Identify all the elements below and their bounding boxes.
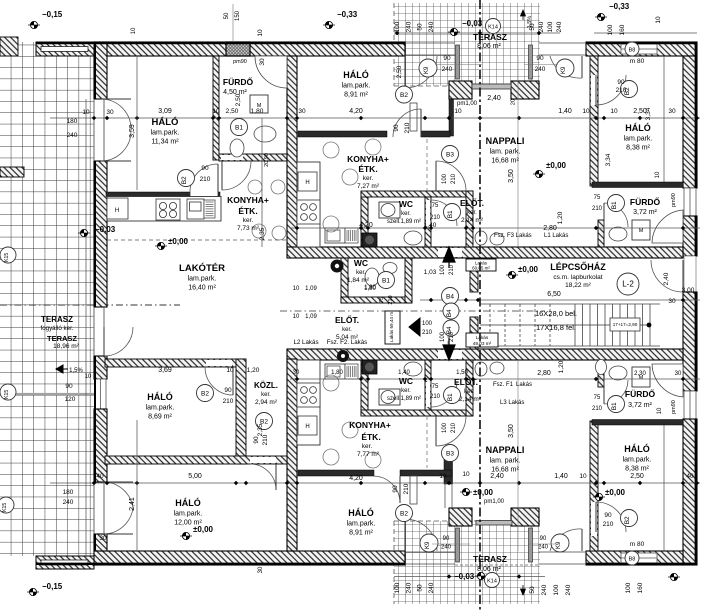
exterior wall left seg3a [94, 356, 107, 379]
kitchen counter top-left [107, 197, 221, 222]
svg-text:50: 50 [417, 584, 424, 592]
svg-text:240: 240 [538, 21, 545, 32]
door gap bath top-left [221, 155, 243, 160]
svg-text:−0,33: −0,33 [337, 10, 358, 19]
svg-text:3,72 m²: 3,72 m² [628, 402, 652, 409]
corridor dashed edge top [426, 139, 428, 191]
svg-text:10: 10 [82, 109, 90, 116]
central wall lower [287, 349, 683, 360]
french door bottom-left [103, 482, 133, 508]
svg-text:3,69: 3,69 [158, 367, 172, 374]
wall above halo bottom-right [592, 420, 683, 426]
svg-text:HÁLÓ: HÁLÓ [152, 116, 179, 128]
svg-text:30: 30 [106, 109, 114, 116]
level marker -0,33 top-right [595, 2, 630, 21]
svg-text:K9: K9 [424, 66, 430, 74]
svg-text:10: 10 [257, 29, 264, 37]
svg-text:210: 210 [592, 406, 603, 412]
elot wall right top-center [425, 197, 431, 247]
terrace rail bottom-right [529, 528, 533, 562]
level marker +-0,00 halo bottom-left [180, 525, 214, 540]
toilet top-center wc [379, 202, 400, 218]
svg-text:75: 75 [594, 395, 601, 401]
corridor wc wall south [341, 297, 412, 303]
svg-text:B1: B1 [447, 210, 454, 218]
svg-text:10: 10 [439, 473, 447, 480]
svg-text:2,50: 2,50 [630, 473, 644, 480]
left window dim line [0, 393, 94, 395]
stove top-left [156, 199, 180, 220]
door circle B2 nappali bottom [396, 505, 413, 522]
svg-text:8,69 m²: 8,69 m² [148, 414, 172, 421]
svg-text:10: 10 [579, 473, 587, 480]
level marker +-0,00 lakoter [155, 237, 189, 250]
svg-text:30: 30 [668, 298, 676, 305]
svg-text:2,50: 2,50 [226, 108, 239, 115]
svg-text:LÉPCSŐHÁZ: LÉPCSŐHÁZ [550, 261, 606, 272]
exterior wall top B [586, 42, 697, 56]
neighbor wall top-left margin [0, 37, 18, 56]
svg-text:5,00: 5,00 [188, 473, 202, 480]
svg-text:90: 90 [65, 383, 73, 390]
svg-text:B2: B2 [400, 92, 408, 99]
svg-text:HÁLÓ: HÁLÓ [147, 391, 173, 402]
washing machine bottom-right [632, 367, 650, 387]
door circle B2 halo bottom-right [621, 510, 638, 527]
svg-text:WC: WC [399, 199, 413, 209]
svg-text:10: 10 [454, 108, 462, 115]
level marker +-0,00 nappali top [533, 161, 567, 178]
svg-text:4,20: 4,20 [349, 108, 363, 115]
terrace tiles left upper [0, 42, 36, 56]
arrow left corridor [409, 318, 420, 336]
svg-text:lam.park.: lam.park. [188, 276, 217, 283]
sink top-left bath [254, 126, 276, 142]
terrace door K9 top-left [405, 56, 437, 88]
door gap bedroom bottom-left [206, 360, 232, 366]
washer dark top-center [362, 233, 377, 247]
svg-text:210: 210 [422, 330, 433, 336]
svg-text:2,80: 2,80 [543, 225, 557, 232]
svg-text:3,50: 3,50 [508, 424, 515, 438]
svg-text:210: 210 [451, 173, 457, 184]
svg-text:lam.park.: lam.park. [623, 457, 652, 464]
kitchen sink bottom-center [325, 364, 345, 379]
svg-text:210: 210 [430, 215, 441, 221]
svg-text:−0,03: −0,03 [462, 19, 483, 28]
door elot B1 bottom [431, 381, 457, 407]
terrace boundary bottom [394, 520, 540, 522]
svg-text:10: 10 [582, 108, 590, 115]
svg-text:M: M [639, 228, 644, 234]
sink bottom-center wc [404, 362, 422, 376]
svg-text:1,84 m²: 1,84 m² [347, 277, 370, 284]
svg-text:120: 120 [65, 396, 76, 403]
svg-text:100: 100 [625, 582, 632, 593]
level marker -0,15 top-left [28, 10, 63, 29]
svg-text:B1: B1 [611, 201, 618, 209]
svg-text:±0,00: ±0,00 [168, 237, 189, 246]
circle B4 corridor c [443, 320, 459, 336]
terrace recess wall bottom-left block [449, 508, 472, 526]
stair label box [610, 318, 640, 331]
svg-text:75: 75 [432, 384, 439, 390]
dimension line y228 [290, 227, 700, 229]
svg-text:75: 75 [432, 203, 439, 209]
entry door gap lower [438, 350, 462, 359]
wc wall top top-center [361, 191, 473, 197]
window circle B8 top [625, 42, 639, 56]
svg-text:210: 210 [200, 176, 211, 183]
svg-text:±0,00: ±0,00 [546, 161, 567, 170]
svg-text:ker.: ker. [467, 210, 477, 216]
svg-text:HÁLÓ: HÁLÓ [348, 507, 374, 518]
H box top-center [298, 172, 317, 191]
svg-text:ELŐT.: ELŐT. [454, 376, 478, 387]
door B3 bottom [436, 416, 466, 446]
svg-text:2,94 m²: 2,94 m² [255, 399, 278, 406]
area box upper [466, 259, 496, 271]
svg-text:10: 10 [226, 367, 234, 374]
toilets near corridor bottom [475, 362, 487, 376]
svg-text:B8: B8 [629, 556, 636, 562]
sliding door bottom terrace [476, 521, 512, 526]
svg-text:50: 50 [529, 586, 536, 594]
sliding door top terrace [472, 84, 511, 89]
svg-text:KONYHA+: KONYHA+ [349, 420, 391, 430]
level marker -0,03 top terrace [448, 19, 483, 36]
left wall opening mid [93, 307, 95, 356]
svg-text:100: 100 [442, 422, 448, 433]
door halo top-right [596, 75, 626, 105]
svg-text:KONYHA+: KONYHA+ [347, 154, 389, 164]
svg-text:B1: B1 [235, 124, 243, 131]
svg-text:WC: WC [354, 258, 368, 268]
outer dimension line top [394, 32, 560, 34]
exterior wall right upper [683, 56, 697, 188]
outline edge top A [36, 42, 405, 44]
svg-text:90: 90 [443, 536, 450, 542]
svg-text:10: 10 [462, 471, 470, 478]
svg-text:1,80: 1,80 [251, 108, 264, 115]
svg-text:7,77 m²: 7,77 m² [357, 451, 380, 458]
svg-text:−0,15: −0,15 [42, 10, 63, 19]
svg-text:240: 240 [441, 545, 452, 551]
door gap bedroom2 bottom-left [250, 457, 276, 463]
svg-text:±0,00: ±0,00 [473, 488, 494, 497]
svg-text:2,40: 2,40 [490, 473, 504, 480]
door halo bottom-right [596, 502, 626, 532]
french door top-left [101, 99, 131, 129]
entry door gap upper [438, 248, 462, 257]
nappali/halo wall top-right [590, 56, 598, 186]
kitchen counter top-center [297, 162, 320, 247]
door circle B3 bottom [442, 445, 459, 462]
svg-text:90: 90 [540, 536, 547, 542]
svg-text:Lakás: Lakás [476, 335, 489, 340]
svg-text:20: 20 [511, 99, 517, 105]
elot/nappali wall top [466, 191, 473, 247]
dish rack top-center [345, 228, 358, 243]
svg-text:L1 Lakás: L1 Lakás [544, 233, 568, 239]
svg-text:10: 10 [131, 27, 137, 34]
threshold bottom-left terrace door [405, 551, 455, 553]
svg-text:240: 240 [556, 21, 563, 32]
door gap halo bottom-right [591, 502, 597, 536]
door circle B2 halo bottom-left [197, 385, 214, 402]
svg-text:1,09: 1,09 [305, 286, 317, 292]
svg-text:210: 210 [404, 122, 411, 133]
svg-text:NAPPALI: NAPPALI [486, 136, 525, 146]
svg-text:pm90: pm90 [671, 193, 677, 207]
svg-text:100: 100 [553, 584, 560, 595]
svg-text:50: 50 [417, 23, 424, 31]
svg-text:lam.park.: lam.park. [624, 136, 653, 143]
window circle K14 top [486, 19, 501, 34]
svg-text:90: 90 [443, 55, 451, 62]
svg-text:90: 90 [224, 387, 232, 394]
outline edge bottom B [586, 563, 697, 565]
svg-text:8,38 m²: 8,38 m² [626, 145, 650, 152]
svg-text:40: 40 [686, 473, 694, 480]
elot/nappali wall bottom [466, 360, 473, 416]
door circle B1 elot top [444, 204, 461, 221]
svg-text:B2: B2 [624, 516, 631, 524]
door bedroom2 bottom-left [250, 464, 276, 490]
window circle K14 bottom [485, 573, 500, 588]
door bath top-right [604, 203, 628, 227]
svg-text:2,35: 2,35 [259, 227, 266, 240]
svg-text:K14: K14 [487, 578, 497, 584]
svg-text:HÁLÓ: HÁLÓ [625, 122, 651, 133]
svg-text:−0,15: −0,15 [42, 582, 63, 591]
svg-text:fogyálló ker.: fogyálló ker. [40, 325, 73, 332]
door circle B2 kozl [256, 413, 273, 430]
wc wall left top-center [361, 192, 368, 247]
exterior wall right mid1 [683, 216, 697, 256]
door circle B3 top [442, 146, 459, 163]
svg-text:1,50: 1,50 [456, 370, 468, 376]
svg-text:240: 240 [67, 132, 78, 139]
svg-text:K14: K14 [488, 24, 498, 30]
svg-text:ker.: ker. [362, 443, 373, 450]
svg-text:lam.park.: lam.park. [174, 511, 203, 518]
door gap halo top-right [591, 75, 597, 105]
svg-text:K9: K9 [556, 541, 562, 549]
svg-text:TERASZ: TERASZ [41, 315, 73, 324]
svg-text:1,40: 1,40 [424, 222, 437, 229]
svg-text:pm1,00: pm1,00 [457, 101, 478, 107]
vertical dim line x86 [85, 99, 87, 560]
nappali west wall top [449, 99, 454, 136]
svg-text:pm1,00: pm1,00 [484, 499, 505, 505]
svg-text:240: 240 [428, 21, 435, 32]
neighbor parapet left a [0, 167, 24, 177]
door circle K9 top-right [556, 59, 574, 77]
svg-text:B2: B2 [181, 176, 188, 184]
svg-text:1,40: 1,40 [558, 108, 572, 115]
svg-text:2,40: 2,40 [487, 95, 501, 102]
svg-text:10: 10 [655, 16, 662, 24]
svg-text:lam.park.: lam.park. [347, 521, 376, 528]
slope arrow left 1,5% [56, 365, 68, 373]
svg-text:210: 210 [603, 521, 614, 528]
svg-text:90: 90 [604, 512, 612, 519]
stair corridor wall bottom [470, 317, 478, 349]
toilet top-left [230, 139, 244, 157]
svg-text:1,5%: 1,5% [69, 368, 83, 374]
svg-text:150: 150 [235, 10, 241, 21]
svg-text:180: 180 [63, 489, 74, 496]
circle B4 corridor b [443, 303, 459, 319]
svg-text:17+17=2,90: 17+17=2,90 [613, 322, 638, 327]
svg-text:30: 30 [298, 108, 306, 115]
svg-text:3,09: 3,09 [158, 108, 172, 115]
door B3 top [436, 161, 466, 191]
svg-text:90: 90 [201, 165, 209, 172]
terrace tiles bottom [394, 521, 540, 604]
terrace door left-mid [104, 327, 133, 356]
svg-text:ÉTK.: ÉTK. [361, 432, 380, 442]
exterior wall right lower [683, 419, 697, 565]
terrace recess wall bottom-right block [511, 508, 539, 526]
terrace tiles left [0, 56, 94, 556]
elot wall right bottom-center [425, 360, 431, 410]
terrace bottom threshold [455, 564, 539, 566]
svg-text:±0,00: ±0,00 [605, 488, 626, 497]
svg-text:2,80: 2,80 [537, 370, 551, 377]
level marker +-0,00 halo bottom-right [593, 488, 626, 501]
svg-text:18,22 m²: 18,22 m² [565, 282, 591, 289]
level marker -0,33 top-mid [323, 10, 358, 29]
svg-text:3,00: 3,00 [682, 287, 695, 294]
svg-text:K9: K9 [425, 541, 431, 549]
svg-text:240: 240 [63, 499, 74, 506]
dish rack top-left [204, 200, 215, 218]
svg-text:240: 240 [405, 582, 412, 593]
svg-text:1,20: 1,20 [247, 367, 260, 374]
central wall upper [287, 247, 683, 258]
halo top-center south wall b [421, 131, 450, 137]
corridor wc toilet [365, 268, 379, 286]
svg-text:180: 180 [67, 118, 78, 125]
exterior wall bottom A [94, 551, 405, 565]
svg-text:100: 100 [440, 264, 446, 275]
sink bottom-right bath [609, 366, 627, 380]
svg-text:3,59: 3,59 [129, 124, 136, 138]
svg-text:100: 100 [442, 173, 448, 184]
chimney top [226, 42, 250, 56]
svg-text:1,80: 1,80 [331, 370, 343, 376]
dining chairs top-left [248, 180, 286, 240]
svg-text:FÜRDŐ: FÜRDŐ [223, 76, 254, 87]
vertical dim line x518 [517, 56, 519, 247]
svg-text:B2: B2 [201, 390, 209, 397]
exterior wall left seg3b [94, 409, 107, 482]
door bath bottom-right [604, 380, 628, 404]
terrace door K9 top-right [550, 56, 582, 78]
terrace rail top-left [456, 45, 460, 79]
svg-text:ker.: ker. [401, 211, 411, 217]
svg-text:240: 240 [565, 584, 572, 595]
vertical dim line x664 [663, 56, 665, 182]
svg-text:100: 100 [607, 24, 614, 35]
svg-text:L2 Lakás: L2 Lakás [293, 339, 318, 346]
svg-text:ker.: ker. [401, 388, 411, 394]
svg-text:3,34: 3,34 [605, 153, 612, 166]
bath stub top-right [598, 220, 604, 247]
svg-text:1,20: 1,20 [557, 211, 564, 224]
svg-text:H: H [305, 424, 309, 430]
dining table bottom-center [323, 375, 381, 468]
svg-text:2,40: 2,40 [663, 272, 670, 285]
wall above bedroom2 bottom-left [105, 456, 287, 464]
window top-right m80 [621, 44, 657, 54]
vertical dim line x262 [261, 118, 263, 247]
svg-text:8,91 m²: 8,91 m² [349, 530, 373, 537]
svg-text:ÉTK.: ÉTK. [358, 164, 377, 174]
svg-text:2,14 m²: 2,14 m² [459, 396, 482, 403]
level marker -0,03 bottom terrace [454, 572, 487, 581]
svg-text:10: 10 [655, 171, 661, 178]
closet halo top-center [410, 103, 417, 131]
svg-text:2,50: 2,50 [396, 65, 403, 78]
exterior wall left seg4 [94, 534, 107, 551]
svg-text:7,73 m²: 7,73 m² [237, 225, 260, 232]
svg-text:KONYHA+: KONYHA+ [227, 195, 269, 205]
door halo top-center [393, 109, 421, 137]
door circle K9 top-left [419, 59, 437, 77]
terrace recess wall top-right block [511, 81, 539, 99]
sink top-center wc [404, 231, 422, 245]
svg-text:3,34: 3,34 [645, 107, 652, 120]
svg-text:1,80: 1,80 [364, 285, 376, 291]
svg-text:210: 210 [451, 422, 457, 433]
svg-text:TERASZ: TERASZ [473, 554, 507, 564]
svg-text:1,40: 1,40 [554, 473, 568, 480]
level marker bottom-right [668, 573, 680, 580]
party wall left/center bottom [287, 359, 297, 551]
halo top-center south wall a [298, 131, 387, 137]
outline edge bottom A [36, 563, 405, 565]
bath stub bottom-right [598, 360, 604, 387]
svg-text:pm90: pm90 [233, 59, 247, 65]
door circle K9 bottom-right [551, 534, 569, 552]
sink top-right bath [609, 227, 627, 241]
svg-text:B2: B2 [400, 510, 408, 517]
area box lower [466, 333, 498, 347]
party wall left/center top [287, 56, 297, 247]
exterior wall left seg2 [94, 161, 107, 307]
exterior wall left seg1 [94, 42, 107, 99]
svg-text:90: 90 [536, 55, 544, 62]
svg-text:10: 10 [657, 407, 663, 414]
svg-text:H: H [115, 208, 119, 214]
closet halo bottom-center [410, 476, 417, 504]
svg-text:1,40: 1,40 [398, 370, 410, 376]
svg-text:240: 240 [442, 66, 453, 73]
svg-text:100: 100 [547, 21, 554, 32]
svg-text:210: 210 [592, 206, 603, 212]
svg-text:2,35: 2,35 [257, 423, 264, 436]
door gap right stairwell [684, 256, 696, 292]
door circle B2 halo top-right [621, 81, 638, 98]
svg-text:lam. park.: lam. park. [490, 458, 521, 465]
outline edge right [695, 42, 697, 188]
toilets near corridor top [475, 231, 487, 245]
svg-text:2,41: 2,41 [129, 497, 136, 511]
svg-text:10: 10 [293, 314, 300, 320]
